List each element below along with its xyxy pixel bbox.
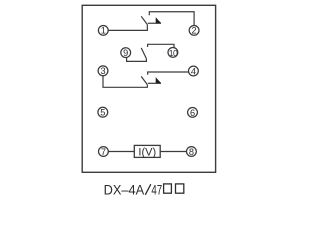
terminal 10 [168, 48, 178, 58]
option square 2 [176, 184, 184, 193]
svg-text:I(V): I(V) [138, 146, 156, 158]
svg-text:DX–4A: DX–4A [104, 182, 145, 198]
motion arrow of contact 1-2 [148, 22, 161, 24]
svg-text:4: 4 [191, 66, 196, 76]
svg-text:3: 3 [100, 66, 105, 76]
terminal 7 [99, 147, 109, 157]
terminal 4 [189, 66, 199, 76]
wire from terminal 1 to contact blade [108, 25, 147, 31]
coil box I(V) [134, 145, 160, 157]
svg-text:2: 2 [192, 26, 197, 36]
fixed contact and wire to terminal 10 [148, 44, 174, 47]
terminal 8 [187, 147, 197, 157]
fixed contact and wire to terminal 4 [148, 72, 189, 75]
svg-text:9: 9 [123, 48, 128, 58]
contact blade (terminals 3-4) [141, 76, 147, 84]
wire from terminal 7 to coil box [108, 151, 134, 153]
motion arrow of contact 3-4 [148, 82, 161, 84]
terminal 5 [98, 107, 108, 117]
contact blade (terminals 1-2) [141, 16, 147, 24]
relay case outline [82, 5, 215, 172]
terminal 6 [188, 108, 198, 118]
svg-text:8: 8 [189, 147, 194, 157]
option square 1 [164, 184, 172, 193]
svg-text:7: 7 [101, 147, 106, 157]
wire from terminal 3 to contact blade [103, 76, 147, 88]
contact blade (terminals 9-10) [141, 48, 146, 59]
svg-text:5: 5 [100, 108, 105, 118]
fixed contact and wire to terminal 2 [149, 12, 194, 26]
terminal 9 [121, 48, 131, 58]
svg-text:6: 6 [190, 108, 195, 118]
terminal 1 [98, 25, 108, 35]
terminal 3 [98, 66, 108, 76]
wire from coil box to terminal 8 [160, 151, 186, 153]
svg-text:47: 47 [151, 182, 162, 198]
wire from terminal 9 to contact blade [127, 57, 147, 61]
terminal 2 [189, 25, 199, 35]
svg-text:10: 10 [169, 48, 178, 58]
svg-text:1: 1 [101, 26, 106, 36]
